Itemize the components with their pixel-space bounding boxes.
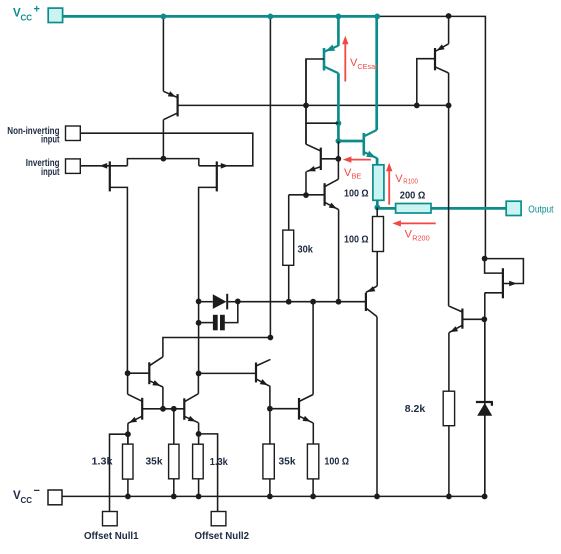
wire Vcc+ rail right (black) [378,16,486,258]
wire R100 bottom to node (teal) [376,200,379,208]
wire Q3 emitter from rail [162,16,164,91]
wire Q5 emitter down [127,423,129,444]
label inverting input [26,158,60,178]
transistor Q7 (mirror helper NPN) [149,357,163,387]
label 1.3k right [210,457,228,468]
terminal inverting input square [66,159,81,174]
svg-text:−: − [34,485,40,497]
node x338 y159 [335,156,341,162]
svg-text:R200: R200 [412,233,429,242]
node rail junction x377 (teal) [374,14,380,20]
wire rail to Q8 collector [269,16,271,337]
annotation arrow VBE [343,156,371,162]
wire mirror rail 2 [270,408,299,410]
node Q12 base-bus junction [414,103,420,109]
node Q16 base junction [303,192,309,198]
annotation arrow VR200 [392,220,435,226]
node diode anode [196,299,202,305]
label VR200 [405,229,430,243]
wire Q12 base to bus [417,59,435,106]
wire non-inverting input to Q2 emitter [80,133,253,166]
node Q13 collector junction (teal) [336,120,342,126]
node teal corner x338 [336,138,342,144]
node Q7 base junction [125,370,131,376]
diode D1 [213,294,227,310]
wire Vcc+ rail (teal) [63,15,379,18]
label 35k left [146,456,163,467]
wire Q13 emitter (teal) [337,16,340,46]
node rail junction x448 [446,13,452,19]
label Offset Null1 [84,531,139,542]
svg-text:CEsat: CEsat [357,62,377,71]
svg-text:CC: CC [21,496,33,505]
wire Q22base to zener [484,319,486,400]
transistor Q14 (teal NPN) [364,130,377,158]
wire Q16 emitter down [338,210,340,302]
wire Q15 emitter down [305,172,307,196]
wire 1.3k-1 top [127,434,129,444]
svg-text:1.3k: 1.3k [92,456,113,467]
resistor R1.3k left [123,444,134,479]
node Q24 junction [482,256,488,262]
label Output [528,204,553,215]
wire zener to rail [484,416,486,497]
svg-text:R100: R100 [403,177,418,186]
wire mirror rail 1 [142,408,184,410]
wire Q6 emitter down [198,423,200,445]
svg-text:1.3k: 1.3k [210,457,228,468]
wire inverting input to Q1 emitter [80,165,110,167]
node Q20 rail junction [374,494,380,500]
transistor Q24 (diode-connected NPN) [485,259,524,299]
terminal Vcc+ square [48,8,62,22]
wire Q12 emitter from rail [448,16,450,43]
svg-text:100 Ω: 100 Ω [324,456,349,467]
transistor Q20 (output PNP) [366,286,377,317]
wire Q13 collector (teal) [337,73,340,141]
transistor Q22 (NPN facing left) [449,306,463,333]
svg-text:input: input [41,135,60,146]
label VBE [344,167,361,181]
node rail junction 100ohm [310,494,316,500]
wire diode to node [227,301,238,303]
wire base branch to teal node [306,122,338,124]
svg-text:Offset Null2: Offset Null2 [195,531,250,542]
wire Q12 collector to bus [448,73,450,105]
wire Q19 emitter down [312,423,314,444]
zener diode Z1 [476,402,493,416]
terminal output square [506,201,521,215]
label non-inverting input [7,126,60,146]
label Vcc+ [13,4,40,23]
svg-text:100 Ω: 100 Ω [344,189,369,200]
label Offset Null2 [195,531,250,542]
wire Q3 collector to input pair [162,120,164,159]
wire Q16 base node [289,194,325,196]
terminal non-inverting input square [66,126,81,141]
resistor R100b (middle 100 ohm) [373,217,384,252]
resistor R100 (teal) [373,165,384,201]
terminal Vcc- square [48,490,62,505]
wire node to R200 (teal) [377,207,395,210]
svg-text:V: V [395,173,403,185]
wire 35k-1 bottom [173,479,175,497]
wire 30k top [288,195,290,230]
resistor R8.2k [443,391,454,426]
wire Q15 base [322,158,339,160]
node 30k bottom junction [286,299,292,305]
wire Q20 collector to rail [376,317,378,497]
wire bias bus [178,104,449,106]
wire Q7 base [128,372,150,374]
node input tail junction [161,156,167,162]
capacitor C1 [213,315,224,330]
label VCEsat [350,57,377,71]
label VR100 [395,173,418,186]
svg-text:+: + [34,4,40,16]
node Q7 emitter junction [160,406,166,412]
node output node (teal) [374,205,380,211]
node Q12 collector-bus junction [446,103,452,109]
wire 1.3k-2 bottom [198,479,200,497]
wire offset null1 [110,434,128,511]
wire R200 to output (teal) [431,207,506,210]
svg-text:8.2k: 8.2k [405,404,426,415]
svg-text:35k: 35k [146,456,163,467]
node Q16 emitter junction [336,299,342,305]
wire 1.3k-1 bottom [127,479,129,496]
wire cap right [224,302,237,323]
svg-text:Offset Null1: Offset Null1 [84,531,139,542]
wire offset null2 [199,434,218,512]
wire collector line y337 [163,338,271,357]
resistor R 30k [283,230,294,265]
svg-text:200 Ω: 200 Ω [400,191,426,202]
transistor Q2 (right input) [163,159,228,374]
transistor Q1 (left input) [100,159,164,374]
transistor Q6 (second mirror NPN) [184,394,198,423]
node rail-Q3 junction [161,14,167,20]
wire Q6 collector up [197,373,199,393]
node x199 y373 [196,371,202,377]
node rail junction 1.3k-2 [196,494,202,500]
wire R100b bottom [376,252,378,286]
node rail junction x338 (teal) [336,14,342,20]
svg-text:CC: CC [21,14,33,23]
label Vcc- [13,485,40,505]
label 35k right [279,456,296,467]
wire Q5 collector up [127,373,129,394]
transistor Q3 (tail current source PNP) [163,91,177,120]
label 30k [298,245,314,256]
svg-text:35k: 35k [279,456,296,467]
svg-text:Output: Output [528,204,553,215]
node x270 y337 [268,335,274,341]
transistor Q16 (NPN) [325,179,339,209]
wire Q19 collector up [312,302,314,395]
wire 35k-1 top [173,409,175,444]
wire Q22 base [462,318,484,320]
annotation arrow VCEsat [342,36,348,82]
node diode cathode [235,299,241,305]
transistor Q12 (right PNP) [435,44,449,73]
resistor R200 (teal) [396,204,431,214]
transistor Q15 (NPN facing left) [306,144,321,171]
svg-text:30k: 30k [298,245,314,256]
node rail junction x270 [268,14,274,20]
wire x448 vertical [448,105,450,306]
transistor Q5 (left mirror NPN, facing left) [128,394,143,423]
node rail junction 35k-2 [267,494,273,500]
wire 35k-2 bottom [269,479,271,497]
wire Q14 emitter to R100 (teal) [376,158,379,165]
wire 35k-2 top [269,409,271,444]
resistor R35k right [263,444,274,479]
svg-text:input: input [41,167,60,178]
wire teal node to base node [337,141,339,159]
svg-text:BE: BE [352,171,362,180]
wire 8.2k bottom [448,426,450,497]
node Q19 collector junction [310,299,316,305]
wire 30k bottom [288,265,290,301]
wire Q16 collector [337,159,339,179]
node Q22 base junction [481,316,487,322]
wire Q7 emitter down [162,387,164,409]
resistor R100 bottom [307,444,318,479]
resistor R1.3k right [193,444,204,479]
terminal offset null2 square [211,512,226,526]
label 100 ohm middle [344,234,369,245]
wire Q14 collector (teal) [375,16,378,130]
wire node to R100b [376,207,378,216]
wire Q14 base (teal) [338,140,362,143]
node Q5 emitter junction [125,431,131,437]
node Q6 emitter junction [196,431,202,437]
terminal offset null1 square [103,512,118,526]
node rail junction 35k-1 [171,494,177,500]
wire diode line right [238,301,366,303]
resistor R35k left [169,444,179,479]
node Q8 emitter junction [267,406,273,412]
transistor Q19 (NPN) [299,395,313,423]
node rail junction 8.2k [446,494,452,500]
node Q13 base-bus junction [303,103,309,109]
wire Q8 base [199,372,256,374]
wire Q22 emitter to 8.2k [448,333,450,392]
label 1.3k left [92,456,113,467]
node 35k-1 top junction [171,406,177,412]
label 100 ohm upper [344,189,369,200]
wire right edge lower segment [484,293,486,497]
wire diode line left [199,301,213,303]
node cap left junction [196,320,202,326]
node rail junction zener [482,494,488,500]
annotation arrow VR100 [386,163,392,205]
label 100 ohm bottom [324,456,349,467]
label 200 ohm [400,191,426,202]
wire bus to base node [305,59,307,144]
label 8.2k [405,404,426,415]
transistor Q8 (NPN) [256,359,270,386]
wire 100-bottom to rail [312,479,314,497]
wire Q8 emitter down [269,387,271,409]
wire Q13 base [306,59,324,144]
transistor Q13 (teal PNP) [324,45,338,74]
node rail junction 1.3k-1 [125,494,131,500]
wire cap left [199,322,214,324]
svg-text:100 Ω: 100 Ω [344,234,369,245]
wire Vcc- rail [62,495,485,497]
